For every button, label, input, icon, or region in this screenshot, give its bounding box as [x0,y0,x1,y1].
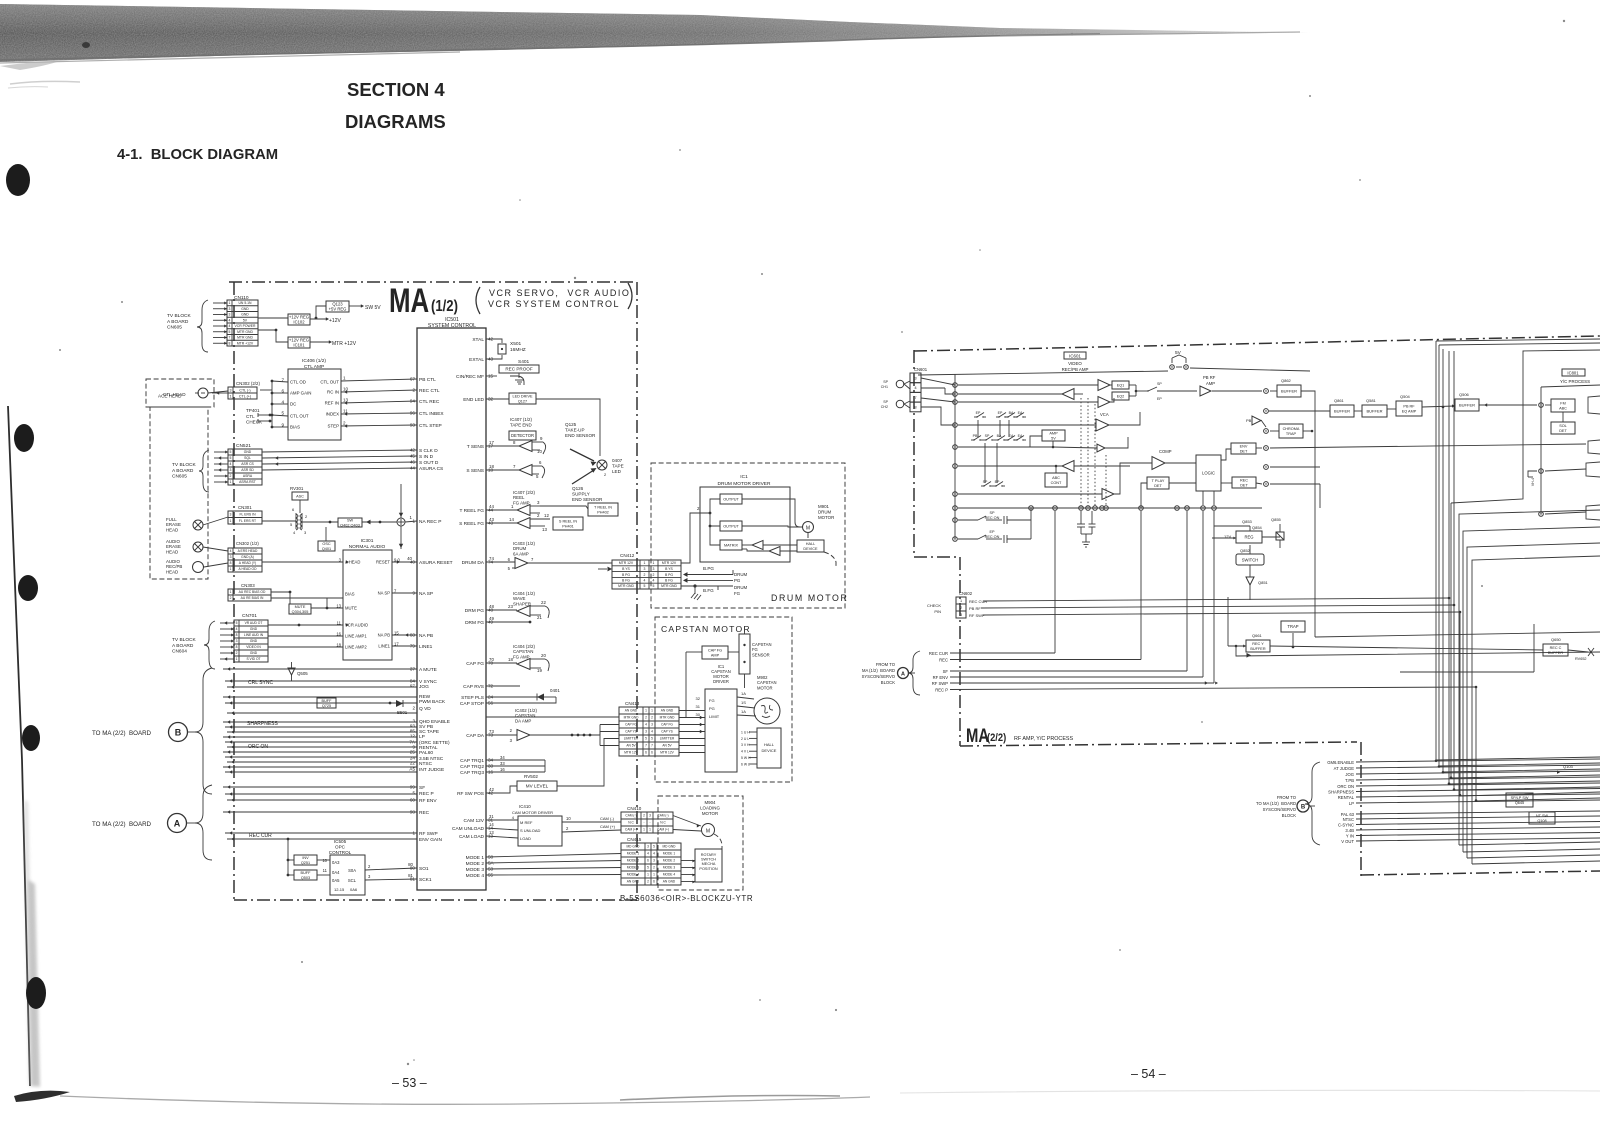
svg-text:13: 13 [343,398,349,403]
CN602 wires [983,598,1449,601]
svg-text:1: 1 [649,828,651,832]
svg-text:0A5: 0A5 [332,878,340,883]
svg-text:Q854: Q854 [1252,525,1263,530]
svg-text:DC: DC [290,402,296,407]
svg-text:JOG: JOG [419,684,429,690]
regulator IC101 [288,337,310,348]
svg-text:SHAPER: SHAPER [513,601,531,606]
svg-text:CTL INBEX: CTL INBEX [419,411,444,417]
svg-text:LED DRIVE: LED DRIVE [512,394,533,398]
node B [169,723,188,742]
svg-text:1: 1 [230,590,232,594]
svg-text:DRUM MOTOR: DRUM MOTOR [771,593,848,603]
svg-text:19: 19 [537,668,542,673]
svg-text:OUTPUT: OUTPUT [723,497,739,501]
svg-text:PB RF: PB RF [969,606,981,611]
svg-text:Q123: Q123 [332,301,343,306]
svg-text:6: 6 [292,507,295,512]
svg-text:1: 1 [229,301,231,305]
svg-text:T.PB: T.PB [1345,778,1354,783]
svg-text:3: 3 [510,738,513,743]
svg-text:4: 4 [236,627,238,631]
svg-text:5: 5 [236,621,238,625]
svg-text:CN303: CN303 [241,583,255,588]
svg-text:RF SWP: RF SWP [969,613,985,618]
junction column x1541 [1540,387,1542,514]
svg-text:2: 2 [604,472,607,477]
svg-text:T REEL FG: T REEL FG [459,508,484,514]
svg-text:HEAD: HEAD [166,527,178,532]
svg-text:3: 3 [960,613,962,617]
svg-text:Q251: Q251 [301,861,310,865]
svg-text:AN 5V: AN 5V [626,744,636,748]
svg-text:REC PROOF: REC PROOF [505,367,533,372]
svg-text:CAM MOTOR DRIVER: CAM MOTOR DRIVER [512,810,553,815]
REC DET [1232,477,1256,488]
tape LED 0407 [570,449,594,461]
wires CN413 to capstan driver [679,710,705,712]
svg-text:Q862: Q862 [1281,378,1292,383]
svg-text:ASURA CS: ASURA CS [419,466,443,472]
svg-text:2: 2 [305,514,308,519]
serial bus wires CN521 to IC501 [262,450,417,452]
svg-text:CTL STEP: CTL STEP [419,423,442,429]
S SENS amp [486,469,519,471]
MA(2/2) title [966,725,989,746]
svg-text:4: 4 [653,579,655,583]
svg-text:B PG: B PG [622,573,630,577]
svg-text:CAPSTAN MOTOR: CAPSTAN MOTOR [661,624,751,634]
svg-text:RESET: RESET [376,560,390,565]
svg-text:Q861: Q861 [1334,398,1345,403]
svg-text:SYSCON/SERVO: SYSCON/SERVO [1263,807,1297,812]
svg-text:IC1: IC1 [740,474,748,480]
rotary switch mecha position [695,849,722,882]
svg-text:CN602: CN602 [959,591,973,596]
svg-text:INT JUDGE: INT JUDGE [419,767,444,773]
svg-text:AN GND: AN GND [625,709,638,713]
svg-text:CAP TRQ2: CAP TRQ2 [460,764,484,770]
svg-text:14: 14 [489,822,494,827]
svg-text:S IN D: S IN D [419,454,434,460]
svg-text:MOTOR: MOTOR [818,515,834,520]
svg-text:5 W H: 5 W H [741,756,751,760]
svg-text:1: 1 [644,561,646,565]
svg-text:B PG: B PG [665,573,673,577]
svg-text:REC ON: REC ON [985,535,1000,539]
cap fg amp [702,646,728,659]
svg-text:RV502: RV502 [524,774,538,779]
svg-text:MTR GND: MTR GND [618,584,634,588]
svg-text:CHECK: CHECK [927,603,941,608]
svg-text:1: 1 [643,828,645,832]
svg-text:2: 2 [651,716,653,720]
scanner dark band top [0,4,1310,62]
SP/LP SW Q645 [1506,793,1533,807]
svg-text:Q853: Q853 [1242,519,1253,524]
dotted return lines [1080,398,1082,508]
svg-text:14: 14 [509,517,514,522]
svg-text:10: 10 [343,387,349,392]
svg-text:12: 12 [544,513,549,518]
svg-text:IC801: IC801 [1567,370,1579,375]
svg-text:5V: 5V [1051,436,1056,440]
svg-text:4: 4 [293,530,296,535]
svg-text:NORMAL AUDIO: NORMAL AUDIO [349,544,386,550]
svg-text:EQ AMP: EQ AMP [1402,409,1417,413]
svg-text:Q661: Q661 [1252,633,1263,638]
svg-text:DETECTOR: DETECTOR [511,433,534,438]
svg-text:CAM 12V: CAM 12V [463,818,484,824]
svg-text:LINE1: LINE1 [419,644,433,650]
svg-text:RV301: RV301 [290,486,304,491]
svg-text:7: 7 [914,395,917,400]
svg-text:21: 21 [537,615,542,620]
svg-text:S OUT D: S OUT D [419,460,439,466]
svg-text:RF SW POS: RF SW POS [457,791,484,797]
svg-text:DET: DET [1559,429,1567,433]
svg-text:LIMIT: LIMIT [709,714,720,719]
svg-text:Q103: Q103 [1563,764,1574,769]
svg-text:CTL OD: CTL OD [290,380,306,385]
svg-text:CTL REC: CTL REC [419,399,440,405]
svg-text:CAM UNLOAD: CAM UNLOAD [452,826,485,832]
svg-text:LINE1: LINE1 [378,644,390,649]
svg-text:4: 4 [914,385,917,390]
svg-text:IC601: IC601 [1069,353,1081,358]
svg-text:-: - [643,821,644,825]
svg-text:LINE AMP1: LINE AMP1 [345,634,367,639]
svg-text:MECHA: MECHA [702,862,716,866]
svg-text:DET: DET [1154,484,1162,488]
svg-text:CH1: CH1 [881,385,888,389]
svg-text:2: 2 [343,421,346,426]
svg-text:IC410: IC410 [519,804,531,809]
driver input wires [681,499,720,563]
svg-text:S401: S401 [518,359,530,365]
binder hole blobs [6,164,30,196]
svg-text:3: 3 [537,500,540,505]
svg-text:Q503: Q503 [301,876,310,880]
svg-text:HALL: HALL [764,742,775,747]
svg-text:CH2: CH2 [881,405,888,409]
svg-text:13: 13 [489,830,494,835]
svg-text:EP: EP [989,530,995,534]
svg-text:CAM (+): CAM (+) [625,828,637,832]
svg-text:20: 20 [541,653,546,658]
svg-text:EQ1: EQ1 [1117,383,1125,387]
svg-text:AU RE BIAS IN: AU RE BIAS IN [241,596,264,600]
svg-text:VCR SYSTEM CONTROL: VCR SYSTEM CONTROL [488,299,620,309]
svg-text:2: 2 [230,596,232,600]
svg-text:3: 3 [230,388,232,392]
svg-text:11: 11 [343,409,348,414]
svg-text:0A6: 0A6 [350,887,358,892]
photo sensor PH401 [553,517,583,530]
svg-text:LIMITTER: LIMITTER [624,737,639,741]
svg-text:2: 2 [643,814,645,818]
svg-text:STEP: STEP [328,424,340,429]
svg-text:LINE AMP2: LINE AMP2 [345,645,367,650]
svg-text:S SENS: S SENS [466,468,484,474]
svg-text:AN GND: AN GND [661,709,674,713]
svg-text:4: 4 [647,852,649,856]
svg-text:PAL60: PAL60 [419,750,433,756]
bottom-left sweep mark [14,1091,70,1102]
svg-text:Q852: Q852 [1240,548,1251,553]
svg-text:SF: SF [943,669,949,674]
svg-text:PG: PG [734,578,741,583]
svg-text:S UNLOAD: S UNLOAD [520,828,541,833]
svg-text:CN415: CN415 [627,837,642,842]
switch matrix [974,416,977,418]
row 2 reverse amp [958,393,1062,395]
svg-text:S CLK D: S CLK D [419,448,438,454]
svg-text:5: 5 [647,866,649,870]
svg-text:1: 1 [230,480,232,484]
svg-text:PH402: PH402 [597,510,609,514]
svg-text:4: 4 [229,324,231,328]
capstan FG sensor [739,634,750,674]
svg-text:MODE 1: MODE 1 [663,852,675,856]
svg-text:AN 5V: AN 5V [662,744,672,748]
svg-text:FG AMP: FG AMP [513,500,530,505]
svg-text:MD GND: MD GND [627,845,641,849]
osc Q401 [318,541,335,551]
svg-text:SW: SW [347,518,354,522]
svg-text:ENV GAIN: ENV GAIN [419,837,442,843]
svg-text:B.FG: B.FG [703,588,714,593]
svg-text:TRAP: TRAP [1287,624,1298,629]
svg-text:4: 4 [230,549,232,553]
row 6 reverse amp [958,465,1062,467]
svg-text:NT SW: NT SW [1536,814,1549,818]
svg-text:Q VD: Q VD [419,706,431,712]
svg-text:BUFF: BUFF [301,871,312,875]
CN521 arrows [214,451,228,453]
svg-text:+12V REG: +12V REG [289,337,309,342]
svg-text:SUPPLY: SUPPLY [572,492,590,497]
svg-text:IC505: IC505 [334,839,347,844]
svg-text:Q725: Q725 [322,704,331,708]
svg-text:RF ENV: RF ENV [933,675,949,680]
hall device (drum) [797,540,824,552]
svg-text:SHARPNESS: SHARPNESS [1328,789,1354,794]
svg-text:ROTARY: ROTARY [701,853,717,857]
svg-text:AT JUDGE: AT JUDGE [1334,766,1355,771]
svg-text:CAM (-): CAM (-) [625,814,636,818]
svg-text:CAM (-): CAM (-) [657,814,668,818]
svg-text:MATRIX: MATRIX [724,543,739,547]
svg-text:NA PB: NA PB [378,633,391,638]
svg-text:SCL: SCL [348,878,357,883]
svg-text:LP: LP [1349,801,1354,806]
svg-text:3: 3 [230,468,232,472]
svg-text:EXTAL: EXTAL [469,357,484,363]
svg-text:8: 8 [230,561,232,565]
svg-text:34: 34 [500,755,505,760]
signal bundle to MA(2/2) board A [223,786,417,788]
svg-text:IC301: IC301 [361,538,374,544]
svg-text:Q402 Q403: Q402 Q403 [340,523,360,527]
svg-text:Q126: Q126 [572,486,584,491]
svg-text:6: 6 [645,751,647,755]
svg-text:DRIVER: DRIVER [713,679,729,684]
svg-text:RF ENV: RF ENV [419,798,437,804]
svg-text:A ERS HEAD: A ERS HEAD [238,549,258,553]
IC801 Y/C PROCESS label [1562,369,1585,376]
svg-text:4: 4 [651,730,653,734]
svg-text:CAP FG: CAP FG [661,723,673,727]
svg-text:Q108: Q108 [1537,819,1546,823]
svg-text:1: 1 [653,561,655,565]
svg-text:IC406 (1/2): IC406 (1/2) [302,358,326,364]
svg-text:MODE 3: MODE 3 [466,867,485,873]
svg-text:GND: GND [250,651,258,655]
svg-text:HALL: HALL [806,542,816,546]
svg-text:DEVICE: DEVICE [803,547,818,551]
svg-text:CN521: CN521 [236,443,251,449]
svg-text:7: 7 [651,744,653,748]
svg-text:4: 4 [653,852,655,856]
svg-text:CRL SYNC: CRL SYNC [248,680,273,686]
svg-text:VH-4: VH-4 [1531,478,1535,486]
svg-text:CTL (+): CTL (+) [239,394,251,398]
svg-text:A HEAD OD: A HEAD OD [239,567,258,571]
svg-text:RC IN: RC IN [327,390,339,395]
svg-text:2: 2 [510,728,513,733]
elbow returns to right edge [1459,510,1600,845]
svg-text:5: 5 [653,584,655,588]
svg-text:Q304,305: Q304,305 [292,610,309,614]
svg-text:END LED: END LED [463,397,484,403]
svg-text:3: 3 [653,859,655,863]
svg-text:MTR 12V: MTR 12V [660,751,674,755]
wires pins down/right [1269,410,1330,412]
svg-text:1: 1 [230,567,232,571]
svg-text:CN302 (2/2): CN302 (2/2) [236,381,260,386]
svg-text:3: 3 [649,814,651,818]
svg-text:1: 1 [653,873,655,877]
transistor Q505 [288,668,295,675]
mute switch Q304,305 [289,604,311,614]
cap trq wires [486,759,545,761]
svg-text:FG: FG [734,591,741,596]
svg-text:NA PB: NA PB [419,633,433,639]
svg-text:12: 12 [410,734,416,739]
svg-text:SYSCON/SERVO: SYSCON/SERVO [862,674,896,679]
svg-text:ACE HEAD: ACE HEAD [158,394,182,399]
svg-text:CN413: CN413 [625,701,640,706]
svg-text:SW 5V: SW 5V [365,305,381,311]
svg-text:ORC ON: ORC ON [1337,784,1354,789]
svg-text:3: 3 [229,313,231,317]
svg-text:CONT: CONT [1051,481,1062,485]
svg-text:ASRA RST: ASRA RST [239,480,256,484]
left page-edge fold line [8,406,30,1086]
svg-text:2: 2 [236,651,238,655]
svg-text:4: 4 [512,815,515,820]
svg-text:PB RF: PB RF [1203,375,1216,380]
svg-text:MODE 1: MODE 1 [627,852,639,856]
svg-text:MODE 2: MODE 2 [663,859,675,863]
svg-text:REC ON: REC ON [985,516,1000,520]
svg-text:REG: REG [1244,534,1253,539]
svg-text:HEAD: HEAD [166,549,178,554]
svg-text:SF: SF [419,785,425,791]
svg-text:MOTOR: MOTOR [757,685,773,690]
faint scan streak bottom right [900,1090,1600,1093]
diode B501 [396,700,403,707]
svg-text:8: 8 [229,341,231,345]
svg-text:FG AMP: FG AMP [513,654,530,659]
loading motor section box [658,796,743,890]
svg-text:M901: M901 [818,504,830,509]
svg-text:73: 73 [489,729,494,734]
svg-text:DRM PG: DRM PG [465,608,484,614]
svg-text:BLOCK: BLOCK [881,680,895,685]
heads section dashed box [146,379,214,407]
svg-text:5: 5 [230,450,232,454]
svg-text:IC101: IC101 [293,343,305,348]
svg-text:NA SP: NA SP [378,591,391,596]
svg-text:SP: SP [883,380,888,384]
svg-text:MODE 3: MODE 3 [627,866,639,870]
svg-text:MTR GND: MTR GND [237,336,253,340]
svg-text:TO MA (2/2) BOARD: TO MA (2/2) BOARD [92,730,152,737]
MA(1/2) block border [229,281,637,283]
MA(2/2) block border [914,336,1600,351]
svg-text:5: 5 [508,566,511,571]
svg-text:TV BLOCK: TV BLOCK [172,637,197,643]
trap filter [1281,621,1305,632]
svg-text:DRUM: DRUM [818,509,832,514]
svg-text:22: 22 [410,761,416,766]
svg-text:REC Y: REC Y [1252,642,1264,646]
svg-text:10: 10 [537,449,542,454]
svg-text:Y/C PROCESS: Y/C PROCESS [1560,379,1590,384]
svg-text:NA SP: NA SP [419,591,433,597]
LOGIC [1196,455,1221,491]
wires IC406 to IC501 [341,379,417,381]
svg-text:MTR GND: MTR GND [624,716,640,720]
svg-text:B FG: B FG [665,579,673,583]
svg-text:S0A: S0A [348,868,356,873]
svg-text:BUFFER: BUFFER [1459,402,1475,407]
svg-text:SCK1: SCK1 [419,877,432,883]
svg-text:REC CUR: REC CUR [969,599,987,604]
svg-text:LIMITTER: LIMITTER [660,737,675,741]
FM ABC [1551,399,1575,412]
svg-text:1: 1 [647,873,649,877]
svg-text:Q851: Q851 [1258,580,1269,585]
svg-text:97: 97 [410,684,416,689]
top bus wires [1436,339,1600,341]
svg-text:BUFF: BUFF [322,699,333,703]
svg-text:33: 33 [500,761,505,766]
svg-text:CIN/REC MF: CIN/REC MF [456,374,484,380]
svg-text:6 W L: 6 W L [741,762,750,766]
svg-text:ENV: ENV [1240,444,1248,448]
svg-text:6: 6 [647,859,649,863]
svg-text:REC C: REC C [1550,646,1562,650]
svg-text:5: 5 [281,411,284,416]
svg-text:END SENSOR: END SENSOR [565,433,596,438]
svg-text:GND: GND [241,313,249,317]
svg-text:CN410: CN410 [627,806,642,811]
svg-text:SP: SP [883,400,888,404]
svg-text:6: 6 [508,557,511,562]
